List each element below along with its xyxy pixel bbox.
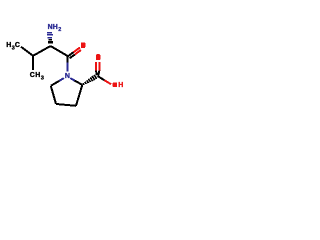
label O (amide oxygen) (81, 42, 85, 48)
bond C(=O)-N blue part (66, 63, 68, 72)
svg-text:C: C (30, 72, 35, 79)
bond N-C5 blue part (60, 78, 64, 81)
label OH (hydroxyl) (113, 82, 124, 89)
bond CH-CH3 vertical (32, 56, 34, 70)
svg-text:3: 3 (41, 75, 44, 81)
hashed wedge C2-COOH (83, 75, 97, 85)
bond C5-C4 (51, 86, 56, 104)
bond Calpha-C(=O) (51, 46, 69, 56)
bond COOH-OH red part (105, 80, 112, 84)
bond CH-Calpha (valine) (33, 46, 51, 56)
label NH2 (valine amine) (48, 24, 62, 33)
svg-text:C: C (15, 42, 20, 49)
svg-text:H: H (118, 82, 123, 89)
double bond C=O (amide) main line (68, 52, 74, 56)
double bond C=O (carboxyl) right line (98, 62, 100, 70)
bond N-C5 black part (51, 81, 60, 86)
bond N-C2 black part (75, 81, 83, 85)
label CH3 (valine methyl) (30, 72, 44, 81)
bond C(=O)-N black part (66, 56, 68, 63)
svg-text:N: N (65, 73, 70, 80)
svg-text:2: 2 (58, 27, 61, 33)
bond C3-C2 (76, 85, 82, 106)
background (0, 0, 130, 130)
svg-text:H: H (35, 72, 40, 79)
svg-text:H: H (53, 24, 58, 31)
label O (carboxyl oxygen) (96, 54, 100, 60)
hashed wedge Calpha-NH2 (47, 32, 53, 44)
double bond C=O (carboxyl) left line (95, 62, 97, 70)
double bond C=O (amide) second line (70, 55, 75, 59)
bond COOH-OH black part (98, 76, 105, 80)
bond N-C2 blue part (70, 78, 74, 81)
bond H3C-CH (isopropyl) (21, 47, 33, 56)
svg-text:H: H (6, 42, 11, 49)
label H3C (valine methyl) (6, 42, 20, 51)
bond C4-C3 (56, 104, 76, 106)
